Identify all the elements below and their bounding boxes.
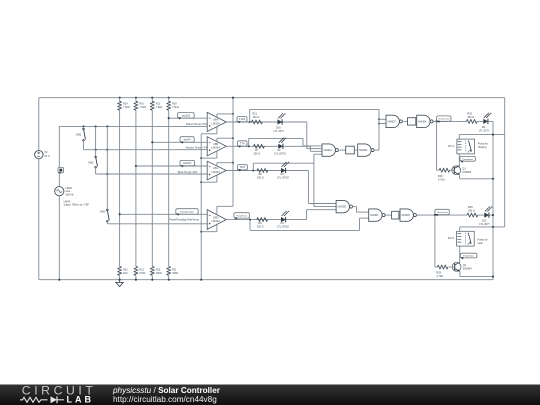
- delay box X1: [346, 146, 355, 154]
- gate NAND3: [369, 209, 382, 221]
- svg-text:330 Ω: 330 Ω: [467, 116, 474, 119]
- junction row2 output: [248, 145, 250, 147]
- junction col2 tap: [135, 165, 137, 167]
- svg-text:swt107: swt107: [183, 161, 192, 165]
- gate NAND6: [400, 209, 413, 221]
- resistor R9 330ohm: [257, 218, 268, 222]
- footer bar: [0, 385, 540, 405]
- NAND5 output wire: [353, 206, 356, 208]
- relay RLY1: [457, 139, 475, 154]
- resistor R21 330ohm: [252, 120, 263, 124]
- svg-text:4.7kΩ: 4.7kΩ: [436, 275, 443, 278]
- svg-text:LTL-30702: LTL-30702: [277, 226, 290, 229]
- junction V+ stub op3: [232, 162, 234, 164]
- transistor Q2 2N3904: [452, 262, 461, 271]
- relay RLY2: [457, 231, 475, 246]
- resistor R13 270Ω (bottom of divider 2): [134, 266, 138, 275]
- relay2 supply wire: [460, 226, 505, 228]
- wire row1 to SW2: [95, 126, 97, 156]
- svg-text:physicsstu / Solar Controller: physicsstu / Solar Controller: [112, 386, 221, 395]
- svg-text:Q1: Q1: [462, 167, 466, 170]
- svg-text:4.7kΩ: 4.7kΩ: [438, 179, 445, 182]
- op-amp U6A V- power stub: [216, 127, 218, 134]
- svg-text:2N3904: 2N3904: [463, 268, 472, 271]
- +12 right riser from top rail: [504, 98, 506, 227]
- vertical B into NAND1: [309, 146, 311, 151]
- switch SW2: [95, 156, 97, 158]
- junction V- rail / bottom rail: [200, 279, 202, 281]
- junction col3 tap: [151, 141, 153, 143]
- op-amp U6D V+ power stub: [216, 206, 218, 214]
- row1 bypass wire to NAND7 column: [250, 108, 379, 110]
- column 1 middle wire: [119, 110, 121, 266]
- resistor R10 1kΩ (bottom of divider 1): [118, 266, 122, 275]
- voltage source V2 12V: [35, 150, 43, 158]
- net flag swt102: [178, 113, 195, 118]
- svg-text:330 Ω: 330 Ω: [254, 152, 261, 155]
- row3 bypass wire: [252, 163, 254, 170]
- NAND3 output wire: [386, 214, 392, 216]
- junction V- stub op2: [200, 157, 202, 159]
- junction bottom rail / column 2: [135, 279, 137, 281]
- svg-text:PumpSolar: PumpSolar: [463, 255, 474, 258]
- svg-text:330 Ω: 330 Ω: [468, 210, 475, 213]
- small net flag on sensor column: [58, 167, 64, 173]
- svg-text:swt102: swt102: [182, 113, 191, 117]
- wire D6 to +12 riser: [489, 120, 494, 122]
- relay RLY2 bottom pin to Q2 collector: [459, 246, 461, 262]
- switch SW1: [83, 126, 85, 128]
- op-amp U6B V+ power stub: [216, 138, 218, 141]
- riser x379: [378, 109, 380, 150]
- resistor R11 330Ω (bottom of divider 4): [167, 266, 171, 275]
- wire SW3 to row4: [106, 222, 108, 224]
- resistor R16 7.5kΩ (top of divider 2): [135, 98, 137, 102]
- svg-text:NAND6: NAND6: [402, 214, 411, 217]
- junction col1 tap: [119, 213, 121, 215]
- row1 bypass wire up: [249, 109, 251, 122]
- svg-text:solar: solar: [478, 242, 484, 245]
- sensor row1 wire - Panel Temp input to op-amp U6A: [59, 125, 207, 127]
- vertical D into NAND1 and NAND5: [313, 154, 315, 206]
- junction D11/riser: [492, 214, 494, 216]
- junction emitter rail / riser: [492, 178, 494, 180]
- junction top rail / column 1: [119, 97, 121, 99]
- svg-text:LTL-30702: LTL-30702: [277, 177, 290, 180]
- net flag Thermostat (solar): [435, 209, 449, 214]
- svg-text:SolarAvailable: SolarAvailable: [180, 210, 195, 213]
- column 2 middle wire: [135, 110, 137, 266]
- wire R26 to D6: [477, 120, 483, 122]
- junction sensor column / bottom rail: [58, 279, 60, 281]
- relay RLY2 top pin: [459, 227, 461, 231]
- svg-text:330 Ω: 330 Ω: [257, 226, 264, 229]
- svg-text:PanelTank: PanelTank: [237, 215, 248, 217]
- junction V+ stub op1: [232, 113, 234, 115]
- bottom ground rail: [39, 279, 493, 281]
- svg-text:NAND2: NAND2: [359, 149, 368, 152]
- relay RLY1 top pin: [458, 135, 460, 140]
- svg-text:U6B: U6B: [213, 142, 218, 146]
- resistor R8 330ohm: [257, 169, 268, 173]
- column 4 middle wire: [168, 110, 170, 266]
- sine source LM34 signal: [55, 187, 64, 196]
- svg-text:House Temp<74: House Temp<74: [186, 146, 207, 150]
- junction V+ stub op2: [232, 137, 234, 139]
- NAND4 output wire: [433, 120, 466, 122]
- net flag PumpHeat: [460, 156, 476, 161]
- junction row2/SW3 column: [106, 149, 108, 151]
- V+ distribution rail: [232, 98, 234, 207]
- svg-text:T74: T74: [240, 142, 245, 146]
- net flag swt74: [180, 137, 194, 142]
- tap wire col2 to op-amp U6C inverting input: [136, 165, 207, 167]
- svg-text:500 Hz: 500 Hz: [65, 192, 74, 196]
- gate NAND1: [322, 144, 335, 156]
- gate NAND5: [336, 200, 349, 212]
- NAND6 output wire: [416, 214, 467, 216]
- svg-text:PanelTemp&gt;TankTemp: PanelTemp&gt;TankTemp: [169, 218, 199, 222]
- wire SW1 to row2: [83, 141, 85, 150]
- svg-text:Thermostat: Thermostat: [437, 211, 448, 214]
- LED D6 LTL-307Y: [483, 119, 488, 124]
- net flag PanelTank: [234, 213, 250, 218]
- wire X3 to NAND6: [399, 214, 400, 216]
- svg-text:U6D: U6D: [213, 215, 218, 219]
- wire sine source to bottom rail: [58, 196, 60, 280]
- net flag T74: [237, 141, 247, 146]
- op-amp U6A V+ power stub: [216, 114, 218, 117]
- resistor R26 330ohm: [466, 119, 477, 123]
- gate NAND7: [386, 115, 399, 127]
- column 3 middle wire: [151, 110, 153, 266]
- resistor R7 330ohm: [254, 144, 265, 148]
- Q1 emitter wire: [459, 175, 461, 179]
- resistor R29 4.7kohm: [437, 265, 447, 269]
- svg-text:SW1: SW1: [76, 132, 82, 136]
- op-amp U6C V- power stub: [216, 175, 218, 182]
- row4 lower branch: [249, 220, 251, 231]
- tap wire col3 to op-amp U6B inverting input: [152, 141, 207, 143]
- svg-text:150Ω: 150Ω: [156, 272, 162, 275]
- svg-text:NAND4: NAND4: [418, 120, 427, 123]
- net flag swt107: [180, 160, 195, 165]
- wire R25 to D11: [478, 214, 485, 216]
- svg-text:7.5kΩ: 7.5kΩ: [172, 106, 179, 109]
- junction row1/SW1: [82, 125, 84, 127]
- net flag SolarAvailable: [176, 209, 198, 214]
- svg-text:270Ω: 270Ω: [139, 272, 145, 275]
- LED D16 LTL-307Y: [278, 119, 283, 124]
- svg-text:SW2: SW2: [88, 161, 94, 165]
- NAND1 output wire: [340, 149, 346, 151]
- svg-text:Thermostat: Thermostat: [438, 118, 449, 121]
- junction solar drive: [434, 214, 436, 216]
- svg-text:NAND3: NAND3: [370, 214, 379, 217]
- switch SW3: [107, 209, 109, 211]
- net flag Thermostat (heating): [437, 116, 451, 121]
- base wire R29 to Q2: [448, 266, 454, 268]
- op-amp U6A output wire: [226, 121, 306, 123]
- NAND7 output wire: [403, 120, 407, 122]
- junction row1/SW2 column: [95, 125, 97, 127]
- svg-text:LAB: LAB: [67, 394, 95, 404]
- junction top rail / column 4: [168, 97, 170, 99]
- vertical C into NAND1: [302, 138, 304, 146]
- sensor column wire upper (node to row1): [58, 126, 60, 167]
- NAND7 input stubs: [379, 118, 386, 120]
- svg-text:7.5kΩ: 7.5kΩ: [139, 106, 146, 109]
- resistor R12 7.5kΩ (top of divider 3): [151, 98, 153, 102]
- op-amp U6D output wire: [226, 219, 306, 221]
- resistor R25 330ohm: [467, 213, 478, 217]
- logo resistor squiggle: [20, 397, 48, 402]
- svg-text:NAND7: NAND7: [388, 120, 397, 123]
- svg-text:RLY2: RLY2: [448, 237, 455, 240]
- svg-text:330 Ω: 330 Ω: [253, 116, 260, 119]
- ground symbol: [119, 280, 121, 283]
- vertical A into NAND1: [306, 122, 308, 149]
- svg-text:PumpHeat: PumpHeat: [462, 158, 473, 161]
- svg-text:T123: T123: [239, 117, 246, 121]
- V- distribution rail: [200, 134, 202, 280]
- junction bottom rail / column 3: [151, 279, 153, 281]
- vertical E into NAND5: [307, 171, 309, 204]
- svg-text:Panel Temp>102: Panel Temp>102: [186, 122, 208, 126]
- svg-text:2N3904: 2N3904: [462, 171, 471, 174]
- svg-text:330 Ω: 330 Ω: [257, 177, 264, 180]
- junction V- stub op3: [200, 181, 202, 183]
- junction row3/SW3 column: [106, 173, 108, 175]
- svg-text:U6A: U6A: [213, 118, 218, 122]
- delay box X2: [408, 118, 416, 125]
- op-amp U6B V- power stub: [216, 151, 218, 158]
- junction top rail / column 3: [151, 97, 153, 99]
- LED D11 LTL-307Y: [484, 213, 489, 218]
- relay RLY1 bottom pin to Q1 collector: [458, 154, 460, 166]
- svg-text:swt74: swt74: [184, 137, 192, 141]
- base wire R28 to Q1: [450, 169, 455, 171]
- svg-text:Heating: Heating: [478, 146, 487, 149]
- svg-text:RLY1: RLY1: [448, 145, 455, 148]
- op-amp U6B LM324: [207, 137, 226, 156]
- svg-text:1kΩ: 1kΩ: [123, 272, 128, 275]
- op-amp U6B output wire: [226, 145, 310, 147]
- junction row1 output: [249, 121, 251, 123]
- logo diode: [51, 396, 58, 403]
- junction V+ rail / top rail: [232, 97, 234, 99]
- tap wire col4 to op-amp U6A inverting input: [169, 117, 208, 119]
- row2 bypass wire: [248, 138, 250, 146]
- junction bottom rail / column 4: [168, 279, 170, 281]
- junction emitter2 rail / riser: [492, 276, 494, 278]
- junction bottom rail / column 1: [119, 279, 121, 281]
- wire D11 to riser: [490, 214, 494, 216]
- junction row3 output: [252, 169, 254, 171]
- svg-text:http://circuitlab.com/cn44v8g: http://circuitlab.com/cn44v8g: [113, 395, 217, 404]
- junction top rail / column 2: [135, 97, 137, 99]
- sensor row2 wire - House Temp input to op-amp U6B: [84, 149, 208, 151]
- NAND2 output wire to riser: [375, 149, 379, 151]
- left rail from top rail down to V2: [38, 98, 40, 151]
- junction row1/SW3 column: [106, 125, 108, 127]
- svg-text:LM324: LM324: [211, 146, 220, 150]
- junction row4 output: [249, 219, 251, 221]
- wire flag to sine source: [58, 173, 60, 187]
- svg-text:T107: T107: [239, 165, 246, 169]
- resistor R28 4.7kohm: [439, 168, 449, 172]
- svg-text:SW3: SW3: [100, 210, 106, 214]
- left rail lower: V2 to ground rail: [38, 159, 40, 280]
- svg-text:LM324: LM324: [211, 170, 220, 174]
- net flag T123: [237, 116, 247, 121]
- svg-text:LTL-30702: LTL-30702: [274, 152, 287, 155]
- LED D4 LTL-30702: [281, 217, 286, 222]
- LED D3 LTL-30702: [281, 168, 286, 173]
- svg-text:LM324: LM324: [211, 219, 220, 223]
- svg-text:12 V: 12 V: [44, 154, 50, 158]
- junction relay2 supply / riser493: [492, 226, 494, 228]
- tap wire col1 to op-amp U6D inverting input: [120, 213, 208, 215]
- svg-text:LM324: LM324: [211, 121, 220, 125]
- svg-text:7.5kΩ: 7.5kΩ: [156, 106, 163, 109]
- op-amp U6C LM324: [207, 161, 226, 180]
- wire X1 to NAND2: [354, 149, 357, 151]
- net flag PumpSolar: [460, 253, 477, 258]
- op-amp U6C V+ power stub: [216, 163, 218, 166]
- svg-text:output 750mv at +75F: output 750mv at +75F: [64, 203, 90, 207]
- svg-text:NAND1: NAND1: [324, 149, 333, 152]
- gate NAND4: [417, 115, 430, 127]
- delay box X3: [392, 211, 399, 219]
- wire rows to SW3: [106, 126, 108, 209]
- svg-text:LTL-307Y: LTL-307Y: [479, 223, 490, 226]
- svg-text:LTL-307Y: LTL-307Y: [274, 130, 285, 133]
- op-amp U6C output wire: [226, 170, 308, 172]
- svg-text:NAND5: NAND5: [338, 206, 347, 209]
- junction col4 tap: [168, 117, 170, 119]
- svg-text:U6C: U6C: [213, 166, 218, 170]
- top +12V rail: [39, 97, 505, 99]
- op-amp U6D LM324: [207, 210, 226, 230]
- resistor R15 150Ω (bottom of divider 3): [150, 266, 154, 275]
- resistor R18 7.5kΩ (top of divider 4): [168, 98, 170, 102]
- svg-text:330Ω: 330Ω: [172, 272, 178, 275]
- svg-text:Q2: Q2: [463, 264, 467, 267]
- junction NAND7 input stubs: [378, 118, 380, 120]
- junction thermostat drive: [436, 120, 438, 122]
- svg-text:V2: V2: [44, 150, 48, 154]
- wire X2 to NAND4: [415, 120, 418, 122]
- vertical H into NAND5: [306, 210, 308, 220]
- sensor row3 wire - Tank Temp input to op-amp U6C: [96, 173, 208, 175]
- wire thermostat net down to R28: [436, 121, 438, 170]
- LED D2 LTL-30702: [278, 144, 283, 149]
- gate NAND2: [358, 144, 371, 156]
- relay1 supply wire: [459, 134, 504, 136]
- svg-text:LTL-307Y: LTL-307Y: [479, 129, 490, 132]
- net flag T107: [237, 165, 247, 170]
- junction row2/SW2 column: [95, 149, 97, 151]
- transistor Q1 2N3904: [452, 166, 461, 175]
- sensor row4 wire - to op-amp U6D: [107, 223, 207, 225]
- Q2 emitter wire: [459, 271, 461, 276]
- resistor R24 7.5kΩ (top of divider 1): [119, 98, 121, 102]
- junction relay1 supply / riser493: [492, 134, 494, 136]
- svg-text:7.5kΩ: 7.5kΩ: [123, 106, 130, 109]
- op-amp U6D V- power stub: [216, 225, 218, 232]
- wire SW2 to row3: [95, 168, 97, 174]
- wire solar net down to R29: [434, 215, 436, 267]
- op-amp U6A LM324: [207, 112, 226, 131]
- svg-text:Tank Temp>107: Tank Temp>107: [177, 170, 198, 174]
- junction V- stub op4: [200, 231, 202, 233]
